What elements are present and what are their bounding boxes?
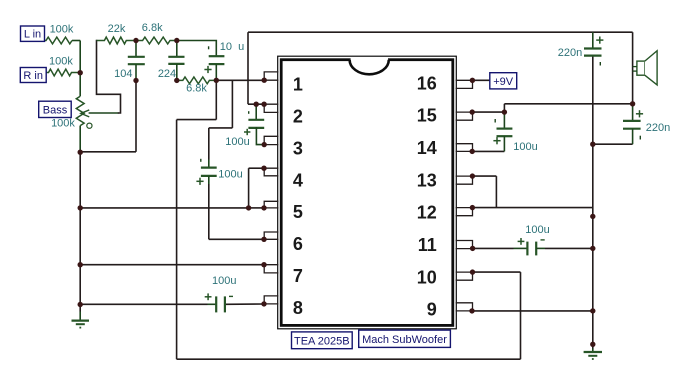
node pin 15 [470,109,475,114]
wire up from pin15 node [503,104,505,112]
capacitor C5 plus [205,296,212,298]
svg-text:3: 3 [293,138,303,158]
capacitor C9 220n (right) [632,104,634,121]
svg-text:10: 10 [417,267,437,287]
svg-text:7: 7 [293,266,303,286]
node pin 1 [262,78,267,83]
wire pin 11 to C7 [473,247,514,249]
node pin 14 [470,149,475,154]
svg-text:224: 224 [158,68,176,80]
node pin 4 [261,166,266,171]
node C9 return [590,142,595,147]
capacitor C8 minus tick [599,62,601,66]
pin 14 bracket [456,144,472,152]
capacitor C1 plates [128,56,145,58]
resistor R1 100k (L in) [45,37,73,44]
node tap pin7 [78,262,83,267]
svg-text:100u: 100u [218,169,242,181]
ground right [592,344,594,348]
capacitor C6 minus tick [494,119,496,123]
node B 10u bottom [214,78,219,83]
capacitor C3 plates [209,55,225,57]
wire pin 13 out [472,175,496,177]
svg-text:8: 8 [293,298,303,318]
label Mach SubWoofer [359,330,451,347]
capacitor C3 10u electrolytic [177,41,217,57]
svg-text:22k: 22k [108,23,126,35]
node 22k/6.8k [133,38,138,43]
pin 9 bracket [456,303,472,311]
capacitor C10 100u electrolytic (pin2-pin3) [255,104,257,120]
op-amp U1 TEA2025B outer outline [278,56,457,329]
resistor R4 6.8k [136,37,177,44]
capacitor C9 minus tick [639,136,641,140]
svg-text:5: 5 [293,202,303,222]
svg-text:100u: 100u [225,136,249,148]
capacitor C7 plates [526,242,528,256]
resistor R3 22k [97,37,137,44]
capacitor C8 plus [596,39,603,41]
capacitor C7 minus [541,239,545,241]
pin 4 bracket [264,168,278,176]
pin 15 bracket [456,112,472,120]
node C6 top [502,109,507,114]
wire 104 node down [135,81,137,152]
op-amp U1 TEA2025B body [281,60,453,326]
wire C5 to pin 8 [226,303,264,305]
node pin 12 [470,205,475,210]
pin 8 bracket [264,296,278,304]
wire wiper up to 22k [97,41,121,114]
svg-text:R in: R in [23,70,43,82]
node R-in junction [78,70,83,75]
svg-text:4: 4 [293,170,303,190]
svg-text:100k: 100k [49,56,73,68]
capacitor C9 plates [623,120,641,122]
node label R in [20,68,46,83]
svg-text:100k: 100k [51,118,75,130]
pin 3 bracket [264,136,278,144]
wire into pin 5 [249,207,264,209]
pin 1 bracket [264,72,278,80]
node C7 return [590,246,595,251]
svg-text:+9V: +9V [493,76,514,88]
svg-text:6: 6 [293,234,303,254]
pin 11 bracket [456,241,472,249]
capacitor C2 224 [176,41,178,57]
svg-text:L in: L in [24,29,41,41]
node pin4/5 join [246,205,251,210]
wire into pin 2 [248,103,264,105]
wire pot bottom to junction [79,126,81,153]
wire jog left to C4 top [209,127,233,129]
svg-text:Bass: Bass [43,104,68,116]
node pin 5 [261,205,266,210]
capacitor C4 plus [196,180,203,182]
node ground right [590,342,595,347]
wire bass junction to 104 node [80,151,136,153]
node pin 7 [261,262,266,267]
svg-text:220n: 220n [646,122,670,134]
capacitor C9 plus [636,113,643,115]
node pin 3 [262,142,267,147]
wire tap to pin 5 [80,207,248,209]
potentiometer wiper arrow [81,110,89,116]
node pin 2 [261,102,266,107]
svg-text:6.8k: 6.8k [142,22,163,34]
capacitor C4 plates [201,167,217,169]
capacitor C4 100u electrolytic (pin1 to pin6) [208,160,210,168]
wire node B to pin 1 [216,79,264,81]
svg-text:100u: 100u [212,275,236,287]
potentiometer marker circle [87,123,92,128]
label TEA 2025B [292,332,353,349]
wire bus down to pot top [79,41,81,97]
capacitor C6 plus [493,140,500,142]
svg-text:TEA 2025B: TEA 2025B [294,335,350,347]
wire top rail pin2 node to speaker node [248,31,633,33]
power +9V [490,73,517,89]
node pin9 return [590,308,595,313]
svg-text:15: 15 [417,106,437,126]
node 6.8k/224 [174,38,179,43]
capacitor C5 plates [215,296,217,312]
capacitor C2 plates [168,56,184,58]
svg-text:Mach SubWoofer: Mach SubWoofer [362,334,447,346]
wire pin 10 out [473,271,521,273]
capacitor C7 100u electrolytic (pin 11) horizontal [514,247,528,249]
resistor R2 100k (R in) [46,69,80,76]
capacitor C5 minus [229,295,233,297]
node pin 16 [470,78,475,83]
svg-text:10 u: 10 u [220,41,244,53]
capacitor C7 plus [518,240,525,242]
node bus mid [590,214,595,219]
wire pin 4 down to pin 5 node [248,168,250,208]
svg-text:2: 2 [293,107,303,127]
svg-text:13: 13 [417,170,437,190]
wire down to capacitor C4 [208,128,210,160]
svg-text:220n: 220n [558,47,582,59]
wire vertical top rail to pin2 [247,32,249,104]
svg-text:16: 16 [417,73,437,93]
node 104 bottom [133,78,138,83]
wire feedback drop at x232 [231,80,233,128]
wire left to long vertical [177,119,217,121]
wire speaker branch vertical [632,32,634,104]
wire bottom rail [177,358,521,360]
wire C4 bottom down [208,184,210,239]
wire pot wiper [89,112,119,114]
capacitor C8 220n (left) [592,32,594,48]
wire left bus vertical [79,152,81,304]
pin 16 bracket [456,80,472,88]
op-amp U1 notch [351,58,388,62]
node tap pin8/ground [78,302,83,307]
svg-text:9: 9 [427,300,437,320]
capacitor C6 plates [497,128,513,130]
wire pin 13 down [495,176,497,208]
wire tap to pin 7 [80,264,264,266]
node C10 top [254,102,259,107]
svg-text:11: 11 [418,235,437,255]
capacitor C4 minus tick [200,159,202,162]
wire into pin 6 [209,238,264,240]
wire tap to capacitor C5 [80,303,207,305]
wire pin 9 to ground bus [472,310,593,312]
svg-text:100k: 100k [50,24,74,36]
speaker terminal stub bottom [633,70,637,72]
wire L-in to bus [72,40,80,42]
capacitor C1 104 [135,41,137,57]
wire right ground bus vertical [592,56,594,345]
capacitor C5 100u electrolytic (pin 8) horizontal [208,303,217,305]
node 224 bottom [174,78,179,83]
node pin 11 [470,246,475,251]
wire pin15 node to speaker node [504,103,632,105]
resistor R5 6.8k [177,77,217,84]
node speaker/C9 [630,101,635,106]
wire C9 bottom to ground bus [593,143,633,145]
capacitor C10 minus tick [248,111,250,114]
wire long left vertical to bottom rail [176,120,178,360]
capacitor C6 100u electrolytic (pin15-pin14) [503,112,505,129]
svg-text:6.8k: 6.8k [186,83,207,95]
wire pin 12 to ground bus [472,207,592,209]
node label L in [21,26,45,41]
svg-text:100u: 100u [513,141,537,153]
node label Bass [39,101,71,117]
pin 7 bracket [264,265,278,273]
node bass out [78,150,83,155]
wire C7 to ground bus [545,247,593,249]
pin 5 bracket [264,201,278,208]
svg-text:14: 14 [417,138,437,158]
speaker LS1 [637,61,645,75]
capacitor C3 minus tick [208,46,210,49]
node pin 9 [469,308,474,313]
wire pin 16 to +9V [472,79,489,81]
wire pin 4 out [249,167,264,169]
potentiometer VR1 zigzag [76,96,84,125]
capacitor C10 plus [244,131,250,133]
capacitor C10 plates [248,119,264,121]
svg-text:12: 12 [417,203,437,223]
pin 10 bracket [456,272,472,280]
capacitor C8 plates [584,47,602,49]
svg-text:104: 104 [114,68,132,80]
ground left [79,305,81,312]
speaker terminal stub top [633,66,637,68]
pin 2 bracket [264,104,278,112]
node pin 10 [470,269,475,274]
node pin 8 [261,301,266,306]
node tap pin5 [78,205,83,210]
pin 13 bracket [456,176,472,184]
capacitor C3 plus [204,69,211,71]
wire pin 15 out [472,111,504,113]
svg-text:100u: 100u [525,224,549,236]
wire pin 14 to C6 bottom [472,150,504,152]
pin 6 bracket [264,232,278,239]
wire bottom rail up to pin 10 [520,272,522,359]
wire node B down [215,80,217,119]
node pin 13 [470,173,475,178]
svg-text:1: 1 [293,75,303,95]
pin 12 bracket [456,208,472,216]
node pin 6 [261,237,266,242]
